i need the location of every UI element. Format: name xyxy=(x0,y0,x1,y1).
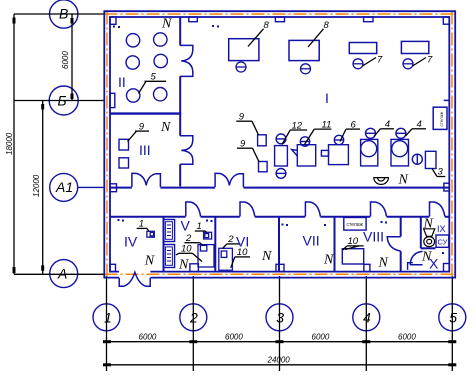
svg-text:5: 5 xyxy=(449,309,457,325)
svg-text:6000: 6000 xyxy=(312,332,330,341)
svg-text:4: 4 xyxy=(417,119,422,130)
svg-text:стелаж: стелаж xyxy=(439,112,444,127)
svg-text:Б: Б xyxy=(58,92,67,108)
svg-text:2: 2 xyxy=(227,234,234,245)
svg-text:10: 10 xyxy=(181,244,192,255)
svg-text:I: I xyxy=(325,90,329,106)
svg-text:6000: 6000 xyxy=(398,332,416,341)
svg-text:В: В xyxy=(59,6,68,22)
svg-text:V: V xyxy=(181,218,191,234)
svg-text:12000: 12000 xyxy=(32,174,41,197)
svg-text:11: 11 xyxy=(322,119,332,130)
svg-text:5: 5 xyxy=(151,72,157,83)
svg-text:А: А xyxy=(57,265,67,281)
svg-text:N: N xyxy=(378,256,389,271)
svg-text:18000: 18000 xyxy=(5,132,14,155)
svg-text:VII: VII xyxy=(303,233,320,249)
svg-text:X: X xyxy=(429,256,439,272)
svg-text:IX: IX xyxy=(437,224,446,234)
svg-text:1: 1 xyxy=(104,309,112,325)
svg-text:6000: 6000 xyxy=(225,332,243,341)
svg-text:СУ: СУ xyxy=(438,238,448,247)
svg-text:9: 9 xyxy=(139,121,145,132)
svg-text:VIII: VIII xyxy=(363,229,384,245)
svg-text:1: 1 xyxy=(197,221,202,232)
svg-text:6000: 6000 xyxy=(139,332,157,341)
svg-text:4: 4 xyxy=(363,309,371,325)
svg-text:III: III xyxy=(139,142,151,158)
svg-text:А1: А1 xyxy=(55,179,73,195)
svg-text:10: 10 xyxy=(348,236,359,247)
svg-text:6: 6 xyxy=(351,119,357,130)
svg-text:2: 2 xyxy=(185,233,192,244)
svg-text:2: 2 xyxy=(189,309,198,325)
svg-text:3: 3 xyxy=(276,309,284,325)
svg-text:N: N xyxy=(423,217,434,232)
svg-text:IV: IV xyxy=(124,234,138,250)
svg-text:N: N xyxy=(161,16,172,31)
svg-text:3: 3 xyxy=(438,167,444,178)
svg-text:9: 9 xyxy=(240,138,246,149)
svg-text:8: 8 xyxy=(264,20,270,31)
svg-text:N: N xyxy=(398,172,409,187)
svg-text:6000: 6000 xyxy=(61,51,70,69)
svg-text:8: 8 xyxy=(324,20,330,31)
svg-text:II: II xyxy=(118,74,126,90)
svg-text:стелаж: стелаж xyxy=(347,222,364,228)
svg-text:N: N xyxy=(323,252,334,267)
svg-text:1: 1 xyxy=(139,219,144,230)
svg-text:7: 7 xyxy=(427,55,433,66)
svg-text:24000: 24000 xyxy=(267,356,291,365)
svg-text:N: N xyxy=(178,258,189,273)
svg-text:N: N xyxy=(144,253,155,268)
svg-text:VI: VI xyxy=(236,234,249,250)
svg-text:9: 9 xyxy=(239,111,245,122)
svg-text:12: 12 xyxy=(292,120,303,131)
svg-text:4: 4 xyxy=(385,119,390,130)
svg-text:N: N xyxy=(261,249,272,264)
svg-text:N: N xyxy=(160,120,171,135)
svg-text:7: 7 xyxy=(377,55,383,66)
